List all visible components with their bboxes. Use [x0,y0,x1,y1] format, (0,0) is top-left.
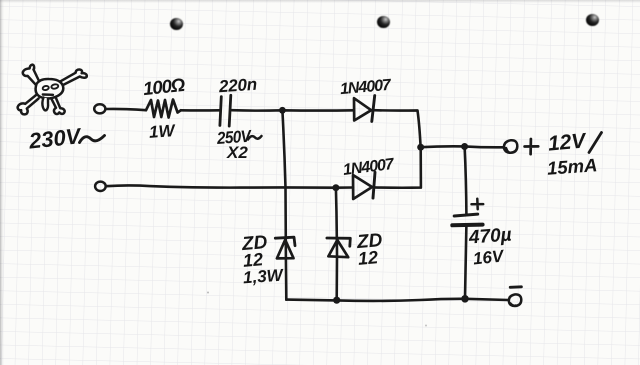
terminal + output [504,140,517,153]
mouth [43,93,53,96]
plus sign C2 [472,199,484,210]
diode D2 [353,172,375,199]
wire R1 to C1 [181,109,219,112]
label ZD2 ZD [356,231,383,252]
label X2 [227,144,248,161]
capacitor C2 plate top [454,214,478,216]
eye left [42,85,49,90]
label 16V [472,247,504,267]
pin 3 [586,14,599,26]
node A junction [279,107,286,114]
plus sign output [525,139,539,154]
wire T2 to node C [106,185,336,187]
minus sign output [510,285,521,288]
jaw [42,98,48,111]
label 1N4007 D1 [339,77,390,97]
stray speck 2 [425,325,427,327]
skull doodle [18,65,87,115]
bone top-left [23,65,40,86]
wire D2 to node B vertical [374,147,421,188]
label 1N4007 D2 [342,157,394,179]
label 220n [218,75,257,95]
zener ZD1 [275,237,295,258]
eye right [51,84,59,90]
slash of 12V label [589,133,602,153]
wire node B to + terminal [421,146,503,147]
diode D1 [354,96,375,122]
terminal minus output [509,294,521,306]
skull head [36,79,64,99]
node B junction [417,144,424,151]
terminal T2 [95,182,106,191]
junction rail/ZD2 [333,297,340,304]
terminal T1 [94,104,105,113]
wire T1 to R1 [106,109,147,110]
wire C1 to node A to D1 [232,109,354,112]
label 100R [142,76,185,99]
label 250V~ [216,128,250,147]
label 15mA [546,156,598,178]
label 1W [148,122,175,141]
node C junction [332,184,339,191]
label 12V/ [547,130,586,154]
tilde of 230V label [80,136,105,143]
bone bottom-left [18,94,39,115]
label 470u [468,225,512,247]
stray speck 1 [207,292,209,294]
bone bottom-right [51,97,65,114]
bone top-right [61,69,87,85]
label ZD2 12 [357,248,379,268]
bottom rail [286,299,508,301]
junction rail/C2 [461,295,469,303]
wire node C to D2 [336,186,353,189]
pin 2 [377,16,390,29]
capacitor C1 plate 2 [229,95,231,126]
junction at capacitor tap [461,143,468,150]
label ZD1 1,3W [242,267,283,287]
wire D1 to node B [374,110,421,147]
wire C2 to rail [465,225,466,299]
capacitor C2 plate bottom [452,223,482,228]
wire cap tap down to C2 [465,147,467,215]
wire node A down through ZD1 to bottom rail corner [282,110,286,299]
label 230V [28,125,81,152]
zener ZD2 [327,238,350,257]
label ZD1 12 [242,250,264,270]
capacitor C1 plate 1 [220,97,221,126]
tilde of 250V label [248,136,262,140]
pin 1 [170,18,183,30]
wire node C down through ZD2 to rail [336,188,337,301]
resistor R1 [146,100,181,118]
label ZD1 ZD [241,233,268,254]
